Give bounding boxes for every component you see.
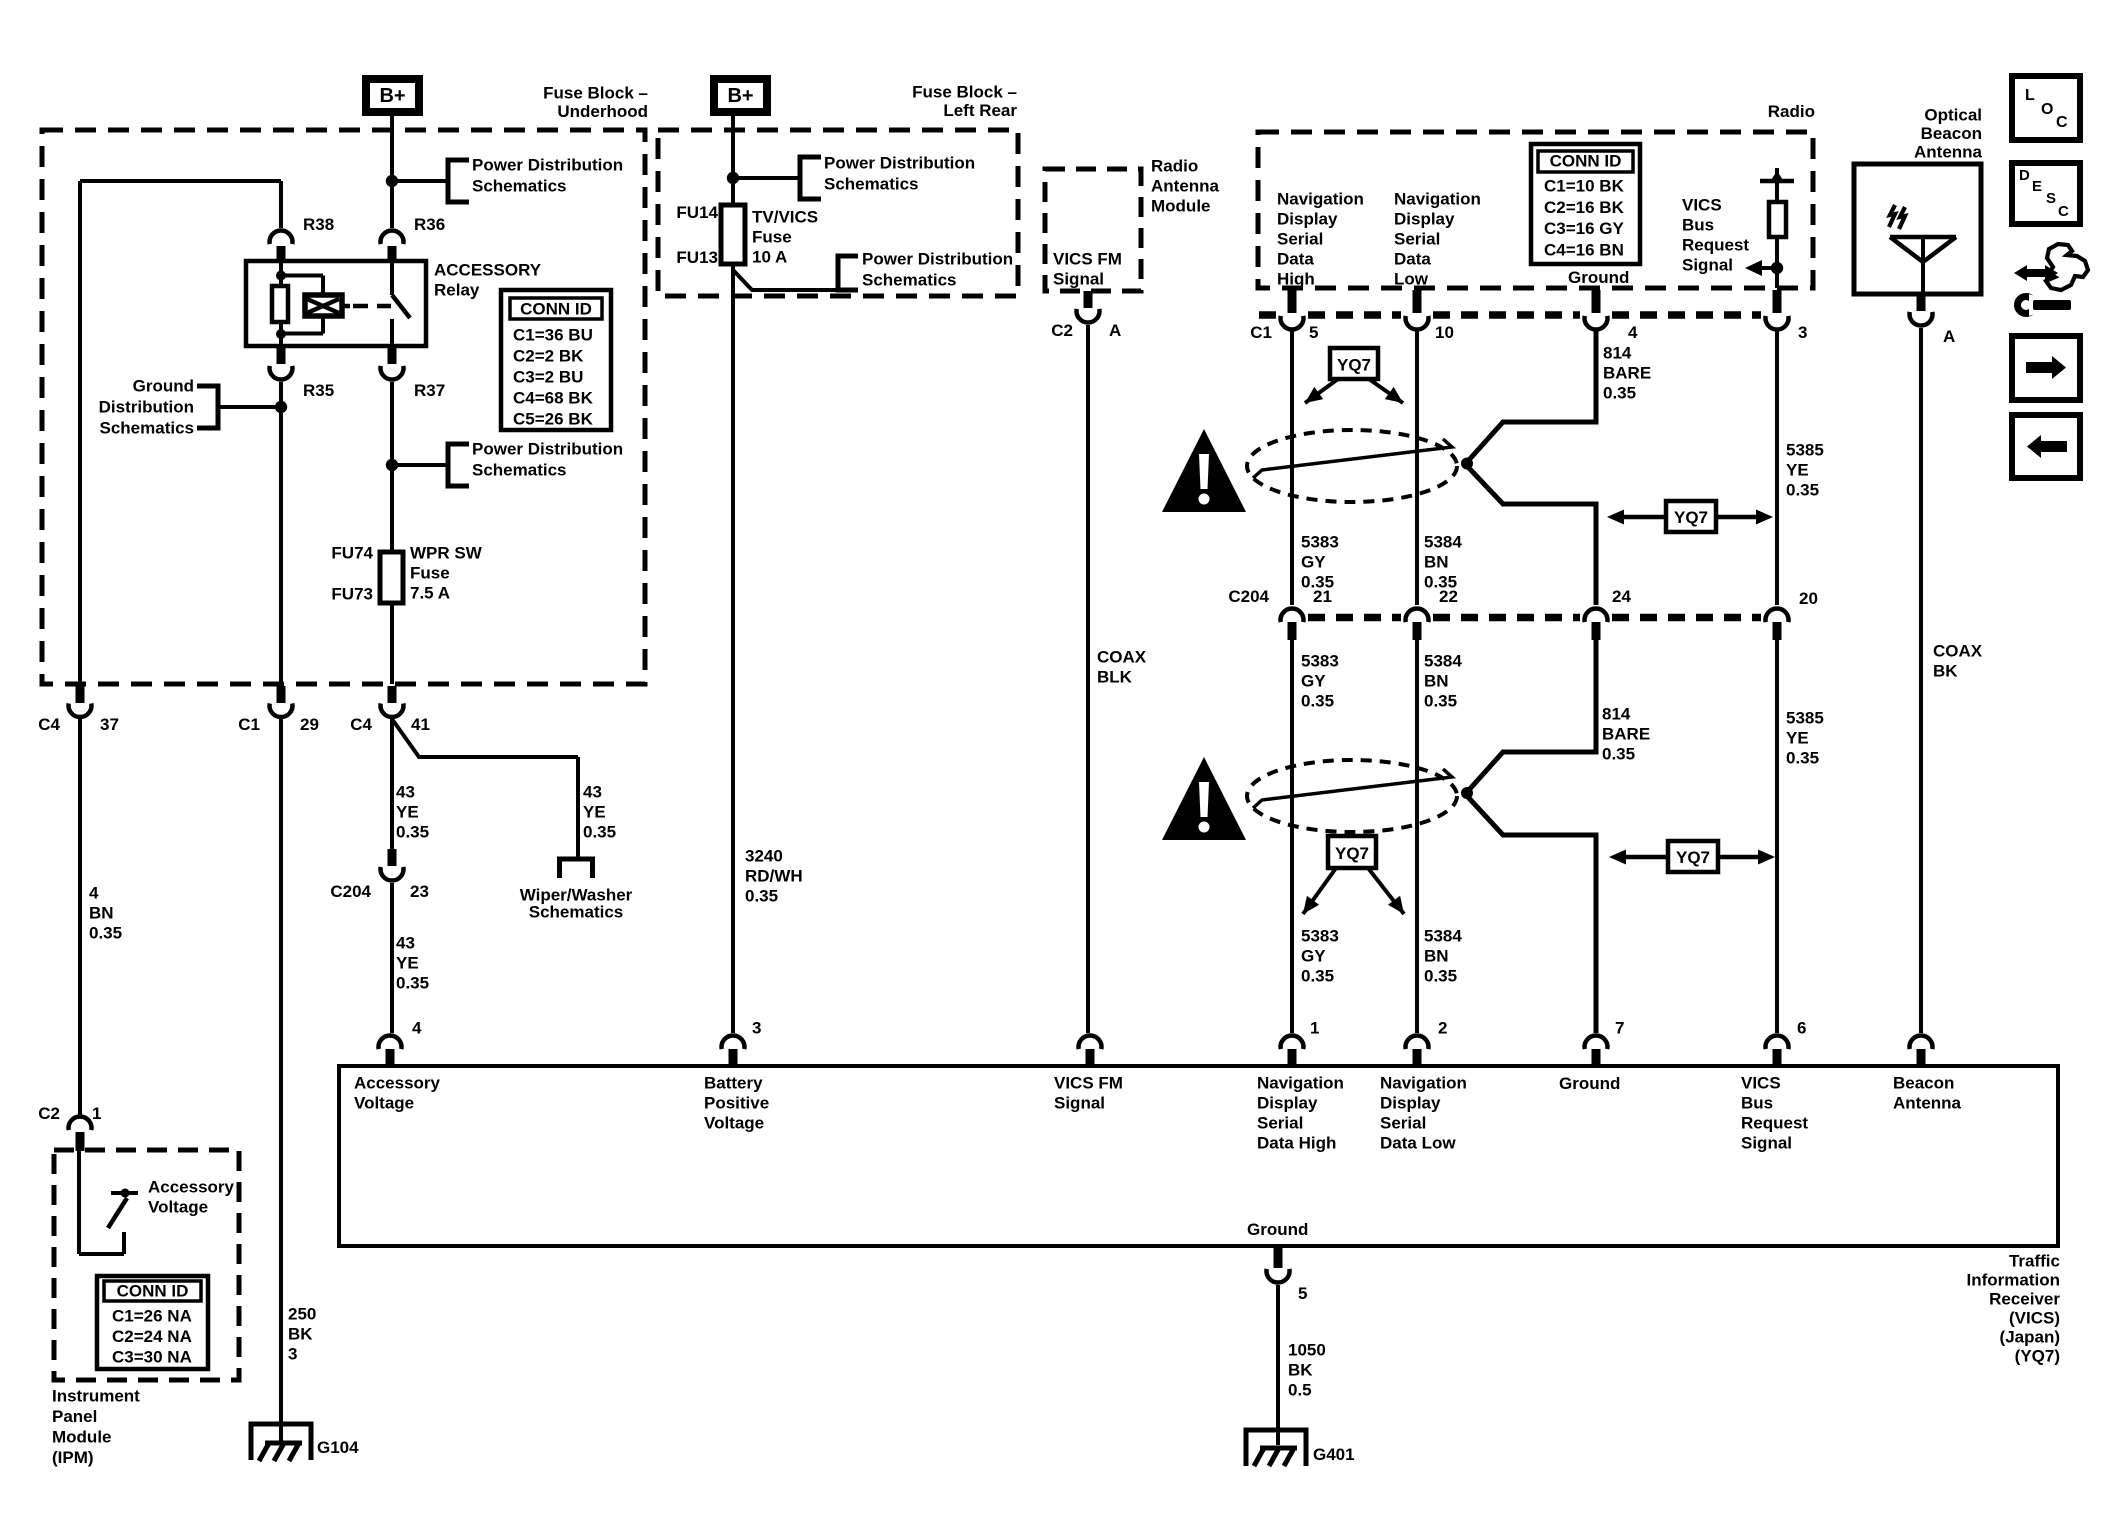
svg-text:WPR SW: WPR SW [410, 544, 483, 563]
svg-text:C4=16 BN: C4=16 BN [1544, 240, 1624, 259]
svg-text:Signal: Signal [1053, 270, 1104, 289]
svg-text:CONN ID: CONN ID [117, 1282, 189, 1301]
svg-text:43: 43 [396, 783, 415, 802]
svg-text:C1=10 BK: C1=10 BK [1544, 177, 1625, 196]
svg-text:3240: 3240 [745, 847, 783, 866]
svg-text:Navigation: Navigation [1394, 190, 1481, 209]
svg-text:ACCESSORY: ACCESSORY [434, 261, 542, 280]
svg-text:0.35: 0.35 [1602, 745, 1635, 764]
svg-text:0.35: 0.35 [1424, 692, 1457, 711]
svg-text:5: 5 [1298, 1284, 1307, 1303]
svg-text:Signal: Signal [1741, 1134, 1792, 1153]
svg-text:C4: C4 [38, 715, 60, 734]
svg-text:Navigation: Navigation [1257, 1074, 1344, 1093]
svg-text:C2=16 BK: C2=16 BK [1544, 198, 1625, 217]
svg-text:D: D [2019, 167, 2030, 184]
svg-text:43: 43 [396, 934, 415, 953]
svg-text:YE: YE [583, 803, 606, 822]
svg-text:C3=30 NA: C3=30 NA [112, 1348, 192, 1367]
svg-text:Schematics: Schematics [529, 903, 624, 922]
svg-text:Navigation: Navigation [1380, 1074, 1467, 1093]
svg-text:(Japan): (Japan) [2000, 1328, 2060, 1347]
svg-text:0.35: 0.35 [396, 974, 429, 993]
svg-text:Distribution: Distribution [99, 398, 194, 417]
svg-text:C1: C1 [238, 715, 260, 734]
svg-text:BN: BN [89, 904, 114, 923]
svg-text:0.35: 0.35 [1603, 384, 1636, 403]
svg-text:C: C [2056, 114, 2068, 131]
svg-text:Radio: Radio [1768, 102, 1815, 121]
svg-text:YE: YE [1786, 461, 1809, 480]
svg-text:C: C [2058, 203, 2069, 220]
svg-text:5385: 5385 [1786, 441, 1824, 460]
svg-text:Serial: Serial [1380, 1114, 1426, 1133]
svg-text:BN: BN [1424, 672, 1449, 691]
svg-text:Bus: Bus [1682, 216, 1714, 235]
svg-text:C2=2 BK: C2=2 BK [513, 347, 584, 366]
svg-text:R37: R37 [414, 381, 445, 400]
svg-text:YE: YE [396, 954, 419, 973]
svg-text:S: S [2046, 190, 2056, 207]
svg-text:814: 814 [1603, 344, 1632, 363]
svg-text:YE: YE [396, 803, 419, 822]
svg-text:Data High: Data High [1257, 1134, 1336, 1153]
svg-text:Ground: Ground [1568, 268, 1629, 287]
svg-text:Fuse: Fuse [410, 564, 450, 583]
svg-text:C1: C1 [1250, 323, 1272, 342]
svg-text:BN: BN [1424, 553, 1449, 572]
svg-text:(IPM): (IPM) [52, 1448, 94, 1467]
svg-text:Voltage: Voltage [704, 1114, 764, 1133]
svg-text:5384: 5384 [1424, 652, 1462, 671]
svg-text:Display: Display [1277, 210, 1338, 229]
svg-text:Data: Data [1394, 250, 1431, 269]
svg-text:C2=24 NA: C2=24 NA [112, 1327, 192, 1346]
svg-text:0.35: 0.35 [396, 823, 429, 842]
svg-text:Beacon: Beacon [1921, 124, 1982, 143]
svg-text:Left Rear: Left Rear [943, 101, 1017, 120]
svg-text:TV/VICS: TV/VICS [752, 208, 818, 227]
svg-text:Information: Information [1967, 1271, 2061, 1290]
svg-text:(YQ7): (YQ7) [2015, 1347, 2060, 1366]
svg-text:0.35: 0.35 [89, 924, 122, 943]
svg-text:4: 4 [412, 1019, 422, 1038]
svg-text:High: High [1277, 270, 1315, 289]
svg-text:0.35: 0.35 [583, 823, 616, 842]
svg-text:4: 4 [89, 884, 99, 903]
svg-text:Fuse Block –: Fuse Block – [912, 83, 1017, 102]
svg-text:5383: 5383 [1301, 927, 1339, 946]
svg-text:Beacon: Beacon [1893, 1074, 1954, 1093]
svg-text:Panel: Panel [52, 1407, 97, 1426]
svg-text:Power Distribution: Power Distribution [862, 250, 1013, 269]
svg-text:R36: R36 [414, 215, 445, 234]
svg-text:(VICS): (VICS) [2009, 1309, 2060, 1328]
svg-text:Receiver: Receiver [1989, 1290, 2060, 1309]
svg-text:23: 23 [410, 882, 429, 901]
svg-text:0.35: 0.35 [1301, 967, 1334, 986]
svg-text:C4: C4 [350, 715, 372, 734]
svg-text:Data Low: Data Low [1380, 1134, 1456, 1153]
svg-text:GY: GY [1301, 553, 1326, 572]
svg-text:Positive: Positive [704, 1094, 769, 1113]
svg-text:Relay: Relay [434, 281, 480, 300]
svg-text:CONN ID: CONN ID [1550, 152, 1622, 171]
svg-text:Schematics: Schematics [100, 419, 195, 438]
svg-text:24: 24 [1612, 587, 1631, 606]
svg-text:0.35: 0.35 [1786, 749, 1819, 768]
svg-text:A: A [1109, 321, 1121, 340]
svg-text:5383: 5383 [1301, 533, 1339, 552]
svg-text:0.5: 0.5 [1288, 1381, 1312, 1400]
svg-text:0.35: 0.35 [745, 887, 778, 906]
svg-text:Underhood: Underhood [557, 102, 648, 121]
svg-text:5384: 5384 [1424, 927, 1462, 946]
svg-text:R35: R35 [303, 381, 334, 400]
svg-text:Display: Display [1394, 210, 1455, 229]
svg-text:Antenna: Antenna [1914, 143, 1983, 162]
svg-text:5383: 5383 [1301, 652, 1339, 671]
svg-text:Fuse: Fuse [752, 228, 792, 247]
svg-text:FU74: FU74 [331, 544, 373, 563]
svg-text:Module: Module [1151, 197, 1211, 216]
svg-text:O: O [2041, 101, 2053, 118]
svg-text:Power Distribution: Power Distribution [472, 440, 623, 459]
svg-text:0.35: 0.35 [1786, 481, 1819, 500]
svg-text:Display: Display [1257, 1094, 1318, 1113]
svg-text:FU14: FU14 [676, 203, 718, 222]
svg-text:VICS FM: VICS FM [1054, 1074, 1123, 1093]
svg-text:BK: BK [1288, 1361, 1313, 1380]
svg-text:C204: C204 [330, 882, 371, 901]
svg-text:Serial: Serial [1277, 230, 1323, 249]
svg-text:Bus: Bus [1741, 1094, 1773, 1113]
svg-text:BK: BK [1933, 662, 1958, 681]
svg-text:Low: Low [1394, 270, 1429, 289]
svg-text:Serial: Serial [1257, 1114, 1303, 1133]
svg-text:Serial: Serial [1394, 230, 1440, 249]
svg-text:Schematics: Schematics [862, 271, 957, 290]
svg-text:Traffic: Traffic [2009, 1252, 2060, 1271]
svg-text:41: 41 [411, 715, 430, 734]
svg-text:Optical: Optical [1924, 106, 1982, 125]
svg-text:1: 1 [92, 1104, 101, 1123]
svg-text:Fuse Block –: Fuse Block – [543, 84, 648, 103]
svg-text:G401: G401 [1313, 1445, 1355, 1464]
svg-text:Request: Request [1682, 236, 1749, 255]
svg-text:C3=2 BU: C3=2 BU [513, 368, 583, 387]
svg-text:Schematics: Schematics [472, 461, 567, 480]
svg-text:7.5 A: 7.5 A [410, 584, 450, 603]
svg-text:BK: BK [288, 1325, 313, 1344]
svg-text:C3=16 GY: C3=16 GY [1544, 219, 1625, 238]
svg-text:Ground: Ground [133, 377, 194, 396]
svg-text:YQ7: YQ7 [1674, 508, 1708, 527]
svg-text:22: 22 [1439, 587, 1458, 606]
svg-text:Navigation: Navigation [1277, 190, 1364, 209]
svg-text:C1=26 NA: C1=26 NA [112, 1307, 192, 1326]
svg-text:21: 21 [1313, 587, 1332, 606]
svg-text:Display: Display [1380, 1094, 1441, 1113]
svg-text:Battery: Battery [704, 1074, 763, 1093]
svg-text:Instrument: Instrument [52, 1387, 140, 1406]
svg-text:Signal: Signal [1682, 256, 1733, 275]
svg-text:250: 250 [288, 1305, 316, 1324]
svg-text:VICS: VICS [1741, 1074, 1781, 1093]
svg-text:Voltage: Voltage [354, 1094, 414, 1113]
svg-text:Antenna: Antenna [1151, 177, 1220, 196]
svg-text:10: 10 [1435, 323, 1454, 342]
svg-text:Ground: Ground [1559, 1074, 1620, 1093]
svg-text:Schematics: Schematics [472, 177, 567, 196]
svg-text:R38: R38 [303, 215, 334, 234]
svg-text:0.35: 0.35 [1301, 692, 1334, 711]
svg-text:3: 3 [1798, 323, 1807, 342]
svg-text:Request: Request [1741, 1114, 1808, 1133]
svg-text:GY: GY [1301, 672, 1326, 691]
svg-text:Accessory: Accessory [148, 1178, 235, 1197]
svg-text:Power Distribution: Power Distribution [824, 154, 975, 173]
svg-text:0.35: 0.35 [1424, 967, 1457, 986]
svg-text:Module: Module [52, 1428, 112, 1447]
svg-text:COAX: COAX [1097, 648, 1147, 667]
svg-text:G104: G104 [317, 1438, 359, 1457]
svg-text:VICS FM: VICS FM [1053, 250, 1122, 269]
svg-text:3: 3 [752, 1019, 761, 1038]
svg-text:20: 20 [1799, 589, 1818, 608]
svg-text:L: L [2025, 87, 2035, 104]
svg-text:1050: 1050 [1288, 1341, 1326, 1360]
svg-text:43: 43 [583, 783, 602, 802]
svg-text:E: E [2032, 178, 2042, 195]
svg-text:Accessory: Accessory [354, 1074, 441, 1093]
svg-text:Data: Data [1277, 250, 1314, 269]
svg-text:C1=36 BU: C1=36 BU [513, 326, 593, 345]
svg-text:2: 2 [1438, 1019, 1447, 1038]
svg-text:RD/WH: RD/WH [745, 867, 803, 886]
svg-text:BARE: BARE [1602, 725, 1650, 744]
svg-text:C5=26 BK: C5=26 BK [513, 410, 594, 429]
svg-text:FU13: FU13 [676, 248, 718, 267]
svg-text:Power Distribution: Power Distribution [472, 156, 623, 175]
svg-text:CONN ID: CONN ID [520, 300, 592, 319]
svg-text:Schematics: Schematics [824, 175, 919, 194]
svg-text:3: 3 [288, 1345, 297, 1364]
svg-text:GY: GY [1301, 947, 1326, 966]
svg-text:Radio: Radio [1151, 157, 1198, 176]
svg-text:6: 6 [1797, 1019, 1806, 1038]
svg-text:YQ7: YQ7 [1337, 356, 1371, 375]
svg-text:YQ7: YQ7 [1335, 844, 1369, 863]
svg-text:5385: 5385 [1786, 709, 1824, 728]
svg-text:7: 7 [1615, 1019, 1624, 1038]
svg-text:29: 29 [300, 715, 319, 734]
svg-text:B+: B+ [727, 85, 753, 107]
svg-text:814: 814 [1602, 705, 1631, 724]
svg-text:C2: C2 [1051, 321, 1073, 340]
svg-text:5: 5 [1309, 323, 1318, 342]
svg-text:BLK: BLK [1097, 668, 1133, 687]
svg-text:Signal: Signal [1054, 1094, 1105, 1113]
svg-text:VICS: VICS [1682, 196, 1722, 215]
svg-text:B+: B+ [379, 85, 405, 107]
svg-text:COAX: COAX [1933, 642, 1983, 661]
svg-text:1: 1 [1310, 1019, 1319, 1038]
svg-text:FU73: FU73 [331, 585, 373, 604]
svg-text:BARE: BARE [1603, 364, 1651, 383]
svg-text:10 A: 10 A [752, 248, 787, 267]
svg-text:C2: C2 [38, 1104, 60, 1123]
svg-text:BN: BN [1424, 947, 1449, 966]
svg-text:4: 4 [1628, 323, 1638, 342]
svg-text:Ground: Ground [1247, 1220, 1308, 1239]
svg-text:Antenna: Antenna [1893, 1094, 1962, 1113]
svg-text:YE: YE [1786, 729, 1809, 748]
svg-text:A: A [1943, 327, 1955, 346]
svg-text:YQ7: YQ7 [1676, 848, 1710, 867]
svg-text:5384: 5384 [1424, 533, 1462, 552]
svg-text:C4=68 BK: C4=68 BK [513, 389, 594, 408]
svg-text:C204: C204 [1228, 587, 1269, 606]
svg-text:Voltage: Voltage [148, 1198, 208, 1217]
svg-text:37: 37 [100, 715, 119, 734]
